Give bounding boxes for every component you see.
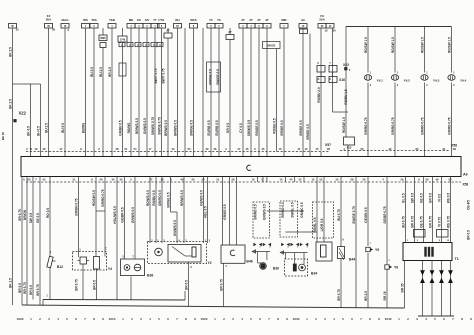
svg-text:1/5: 1/5 [327, 147, 331, 151]
svg-text:BR/GE 0.5: BR/GE 0.5 [306, 124, 310, 139]
svg-text:TKS: TKS [91, 18, 97, 22]
svg-text:BK 2.5: BK 2.5 [8, 99, 12, 109]
svg-text:3: 3 [232, 317, 234, 321]
svg-text:GN/BC 0.5: GN/BC 0.5 [300, 202, 304, 218]
svg-text:4: 4 [241, 317, 243, 321]
svg-text:GN/WS 0.5: GN/WS 0.5 [143, 118, 147, 134]
svg-text:MB: MB [129, 18, 133, 22]
svg-text:GR 0.75: GR 0.75 [428, 216, 432, 228]
svg-text:WS 0.5: WS 0.5 [446, 193, 450, 204]
svg-text:X57: X57 [325, 143, 331, 147]
svg-text:BR/WS 0.5: BR/WS 0.5 [164, 120, 168, 136]
svg-text:B36: B36 [147, 274, 153, 278]
svg-text:BR/RO 0.75: BR/RO 0.75 [420, 117, 424, 134]
svg-text:BR/RO 0.75: BR/RO 0.75 [364, 117, 368, 134]
svg-text:7: 7 [268, 317, 270, 321]
svg-text:9: 9 [102, 317, 104, 321]
svg-text:SW 0.5: SW 0.5 [29, 213, 33, 224]
svg-text:9: 9 [286, 317, 288, 321]
svg-text:3: 3 [416, 317, 418, 321]
svg-text:BU 0.75: BU 0.75 [401, 216, 405, 228]
svg-text:1: 1 [122, 317, 124, 321]
svg-text:GN/WS 0.5: GN/WS 0.5 [173, 220, 177, 236]
svg-text:9: 9 [378, 317, 380, 321]
svg-text:BR/RO 0.75: BR/RO 0.75 [447, 117, 451, 134]
svg-text:GR/WS 0.5: GR/WS 0.5 [263, 204, 267, 220]
svg-text:SW 0.75: SW 0.75 [410, 216, 414, 228]
svg-text:TC: TC [209, 18, 213, 22]
svg-text:BR/GN 0.75: BR/GN 0.75 [74, 198, 78, 215]
svg-text:X22: X22 [19, 111, 27, 116]
svg-text:6: 6 [75, 317, 77, 321]
svg-text:3: 3 [324, 317, 326, 321]
svg-text:8: 8 [461, 317, 463, 321]
svg-text:30: 30 [52, 28, 56, 32]
svg-text:RO/SW 0.5: RO/SW 0.5 [92, 190, 96, 206]
svg-text:RO/WS: RO/WS [127, 123, 131, 134]
svg-text:BR/GE 0.5: BR/GE 0.5 [280, 120, 284, 135]
svg-text:SW/GE 0.75: SW/GE 0.75 [352, 206, 356, 224]
svg-text:BR/WS 0.5: BR/WS 0.5 [135, 118, 139, 134]
svg-text:BK 2.5: BK 2.5 [8, 278, 12, 288]
svg-text:4: 4 [333, 317, 335, 321]
svg-text:30A: 30A [46, 18, 52, 22]
svg-text:Y9.4: Y9.4 [460, 79, 467, 83]
svg-text:BR/RO 0.75: BR/RO 0.75 [101, 189, 105, 206]
svg-text:GE/BR 0.5: GE/BR 0.5 [120, 207, 124, 222]
svg-text:EU/RO 0.5: EU/RO 0.5 [207, 120, 211, 135]
svg-text:BR 35: BR 35 [400, 283, 404, 292]
svg-text:BR 0.75: BR 0.75 [36, 284, 40, 296]
svg-text:AT: AT [265, 18, 269, 22]
svg-text:1: 1 [214, 317, 216, 321]
svg-text:8: 8 [93, 317, 95, 321]
svg-text:GE/BR 0.75: GE/BR 0.75 [383, 206, 387, 223]
svg-text:1930: 1930 [17, 317, 24, 321]
svg-text:RO/SW 1.5: RO/SW 1.5 [364, 37, 368, 53]
svg-text:B46: B46 [246, 260, 252, 264]
svg-text:A: A [342, 239, 344, 242]
svg-text:EU/RO 0.5: EU/RO 0.5 [215, 120, 219, 135]
svg-text:6: 6 [443, 317, 445, 321]
svg-text:DIAG: DIAG [62, 18, 69, 22]
svg-text:RO/SW 1.5: RO/SW 1.5 [342, 117, 346, 133]
svg-text:RO/SW 1.5: RO/SW 1.5 [447, 37, 451, 53]
svg-text:BR/WS 0.5: BR/WS 0.5 [173, 120, 177, 136]
svg-text:RO/SW 1.5: RO/SW 1.5 [420, 37, 424, 53]
svg-text:Y9.1: Y9.1 [377, 79, 384, 83]
svg-text:AT: AT [241, 18, 245, 22]
svg-text:CY 0.5: CY 0.5 [239, 123, 243, 133]
svg-text:GE 0.75: GE 0.75 [419, 216, 423, 228]
svg-text:3: 3 [140, 317, 142, 321]
svg-text:2: 2 [223, 317, 225, 321]
svg-text:RO/GE 0.5: RO/GE 0.5 [272, 118, 276, 134]
svg-text:HBL 0.5: HBL 0.5 [203, 206, 207, 218]
svg-text:C: C [105, 248, 107, 251]
svg-text:5: 5 [250, 317, 252, 321]
svg-text:9: 9 [194, 317, 196, 321]
svg-text:B44: B44 [349, 258, 355, 262]
svg-text:SW/RO 0.5: SW/RO 0.5 [158, 190, 162, 206]
svg-text:BW/T 0.75: BW/T 0.75 [161, 68, 165, 83]
svg-text:GR 0.5: GR 0.5 [226, 123, 230, 133]
svg-text:30: 30 [332, 29, 336, 33]
svg-text:1630: 1630 [293, 317, 300, 321]
svg-text:B12: B12 [57, 265, 63, 269]
svg-text:WFS: WFS [190, 18, 196, 22]
svg-text:X16: X16 [339, 78, 345, 82]
svg-text:X58: X58 [451, 144, 457, 148]
svg-text:CB 4/5: CB 4/5 [466, 200, 470, 210]
svg-text:GE/WS 0.5: GE/WS 0.5 [199, 190, 203, 206]
svg-text:BK 2.5: BK 2.5 [8, 47, 12, 57]
svg-text:RO/GE 0.5: RO/GE 0.5 [255, 120, 259, 136]
svg-text:SW/GE 0.5: SW/GE 0.5 [208, 69, 212, 85]
svg-text:A: A [159, 44, 161, 47]
svg-text:9: 9 [470, 317, 472, 321]
svg-text:2: 2 [131, 317, 133, 321]
svg-text:T1: T1 [455, 257, 459, 261]
svg-text:UTIL: UTIL [158, 18, 165, 22]
svg-text:2: 2 [315, 317, 317, 321]
svg-text:KS: KS [137, 18, 141, 22]
svg-text:7: 7 [360, 317, 362, 321]
svg-text:Y9.2: Y9.2 [404, 79, 411, 83]
svg-text:2: 2 [407, 317, 409, 321]
svg-text:7: 7 [84, 317, 86, 321]
svg-text:BH 0.5: BH 0.5 [36, 126, 40, 136]
svg-text:BL 0.5: BL 0.5 [401, 193, 405, 203]
svg-text:BR/WS 0.5: BR/WS 0.5 [180, 190, 184, 206]
svg-text:BR 0.75: BR 0.75 [337, 289, 341, 301]
svg-text:15: 15 [324, 29, 328, 33]
svg-text:GR/WS 0.5: GR/WS 0.5 [131, 207, 135, 223]
svg-text:8: 8 [185, 317, 187, 321]
svg-text:BU 0.5: BU 0.5 [61, 123, 65, 133]
svg-text:NMS: NMS [100, 37, 106, 40]
svg-text:Y4: Y4 [108, 267, 112, 271]
svg-text:BW/T 0.75: BW/T 0.75 [154, 68, 158, 83]
svg-text:5: 5 [66, 317, 68, 321]
svg-text:L/GR 0.5: L/GR 0.5 [320, 218, 324, 231]
svg-text:3: 3 [48, 317, 50, 321]
svg-text:BR 0.5: BR 0.5 [184, 280, 188, 290]
svg-text:SW/GE 0.75: SW/GE 0.75 [157, 117, 161, 135]
svg-text:SW/WS 0.5: SW/WS 0.5 [247, 120, 251, 136]
svg-text:VI 0.75: VI 0.75 [437, 217, 441, 227]
svg-text:BU 2.5: BU 2.5 [90, 67, 94, 77]
svg-text:BR 2.5: BR 2.5 [108, 67, 112, 77]
svg-text:1620: 1620 [201, 317, 208, 321]
svg-text:BK 26: BK 26 [1, 132, 5, 140]
svg-text:5: 5 [434, 317, 436, 321]
svg-text:GE 0.5: GE 0.5 [419, 193, 423, 203]
svg-text:BR 0.75: BR 0.75 [74, 279, 78, 291]
svg-text:4: 4 [57, 317, 59, 321]
svg-text:RO/BL 0.5: RO/BL 0.5 [313, 217, 317, 232]
svg-text:6: 6 [167, 317, 169, 321]
svg-text:Y5: Y5 [375, 248, 379, 252]
svg-text:E15: E15 [347, 146, 352, 150]
svg-text:RO/BU 2.0: RO/BU 2.0 [317, 87, 321, 103]
svg-text:GE/GN 0.5: GE/GN 0.5 [364, 207, 368, 223]
svg-text:RO/BU 0.5: RO/BU 0.5 [152, 190, 156, 206]
svg-text:SW/GE 0.5: SW/GE 0.5 [216, 69, 220, 85]
svg-text:SW 0.5: SW 0.5 [410, 193, 414, 204]
svg-text:BR 0.75: BR 0.75 [18, 209, 22, 221]
svg-text:BR 0.75: BR 0.75 [219, 279, 223, 291]
svg-text:BR 0.5: BR 0.5 [29, 285, 33, 295]
svg-text:B30: B30 [273, 267, 279, 271]
svg-text:RO 0.5: RO 0.5 [46, 208, 50, 218]
svg-text:GN/BU 0.5: GN/BU 0.5 [118, 120, 122, 136]
svg-text:B34: B34 [311, 272, 317, 276]
svg-text:AT: AT [249, 18, 253, 22]
svg-text:4: 4 [425, 317, 427, 321]
svg-text:4: 4 [149, 317, 151, 321]
svg-text:1610: 1610 [109, 317, 116, 321]
svg-text:6: 6 [351, 317, 353, 321]
svg-text:1746: 1746 [120, 39, 126, 42]
svg-text:1640: 1640 [385, 317, 392, 321]
svg-text:BU/WS: BU/WS [81, 123, 85, 133]
svg-text:MID: MID [281, 18, 286, 22]
svg-text:TY: TY [153, 18, 157, 22]
svg-text:BR/GN: BR/GN [23, 209, 27, 220]
svg-text:GR 0.5: GR 0.5 [428, 193, 432, 203]
svg-text:INJ: INJ [175, 18, 180, 22]
svg-text:AC: AC [301, 18, 305, 22]
svg-text:8: 8 [277, 317, 279, 321]
svg-text:BR 0.75: BR 0.75 [23, 282, 27, 294]
svg-text:AT: AT [257, 18, 261, 22]
svg-text:4/5: 4/5 [453, 147, 457, 151]
svg-text:BR/RO 0.5: BR/RO 0.5 [253, 204, 257, 220]
svg-text:2: 2 [39, 317, 41, 321]
svg-text:25A: 25A [319, 18, 325, 22]
svg-text:S/V: S/V [145, 18, 150, 22]
svg-text:Y9.3: Y9.3 [433, 79, 440, 83]
svg-text:GR/GE 0.5: GR/GE 0.5 [223, 204, 227, 220]
svg-text:BR/GE 0.5: BR/GE 0.5 [299, 120, 303, 135]
svg-text:Y2: Y2 [208, 261, 212, 265]
svg-text:VI 0.5: VI 0.5 [437, 194, 441, 202]
svg-text:WS 0.75: WS 0.75 [446, 216, 450, 228]
svg-text:X58: X58 [463, 183, 469, 187]
svg-text:A6: A6 [463, 173, 468, 177]
svg-text:BU 0.75: BU 0.75 [337, 209, 341, 221]
svg-text:GE 0.5: GE 0.5 [36, 213, 40, 223]
svg-text:BR 0.5: BR 0.5 [18, 283, 22, 293]
svg-text:15: 15 [15, 28, 19, 32]
svg-text:SW/GE: SW/GE [267, 44, 276, 48]
svg-text:BR 16: BR 16 [383, 291, 387, 300]
svg-text:RO/SW 1.5: RO/SW 1.5 [391, 37, 395, 53]
svg-text:SW/BL 0.5: SW/BL 0.5 [291, 202, 295, 218]
svg-text:1: 1 [306, 317, 308, 321]
svg-text:BU 2.5: BU 2.5 [99, 67, 103, 77]
svg-text:5: 5 [158, 317, 160, 321]
svg-text:BR 0.5: BR 0.5 [92, 280, 96, 290]
svg-text:HBL/WS 0.5: HBL/WS 0.5 [113, 206, 117, 224]
svg-text:1: 1 [398, 317, 400, 321]
svg-text:BR/RO 0.5: BR/RO 0.5 [281, 202, 285, 218]
svg-text:BR/GE 0.5: BR/GE 0.5 [166, 192, 170, 207]
svg-text:7: 7 [452, 317, 454, 321]
svg-text:BR 0.5: BR 0.5 [466, 230, 470, 240]
svg-text:7: 7 [176, 317, 178, 321]
svg-text:INS: INS [83, 18, 88, 22]
svg-text:1: 1 [30, 317, 32, 321]
svg-text:BK 0.5: BK 0.5 [26, 126, 30, 136]
svg-text:8: 8 [369, 317, 371, 321]
svg-text:BR/RO 0.75: BR/RO 0.75 [391, 117, 395, 134]
svg-text:5: 5 [342, 317, 344, 321]
svg-text:SW/WS 0.75: SW/WS 0.75 [151, 117, 155, 135]
svg-text:BR 2.5: BR 2.5 [364, 291, 368, 301]
svg-text:Y6: Y6 [394, 266, 398, 270]
svg-text:RO/WS 0.5: RO/WS 0.5 [146, 190, 150, 206]
svg-text:TC: TC [217, 18, 221, 22]
svg-text:TKB: TKB [109, 18, 115, 22]
svg-text:BU 2.5: BU 2.5 [44, 123, 48, 133]
svg-text:6: 6 [259, 317, 261, 321]
svg-text:SW/GE 0.5: SW/GE 0.5 [189, 120, 193, 136]
